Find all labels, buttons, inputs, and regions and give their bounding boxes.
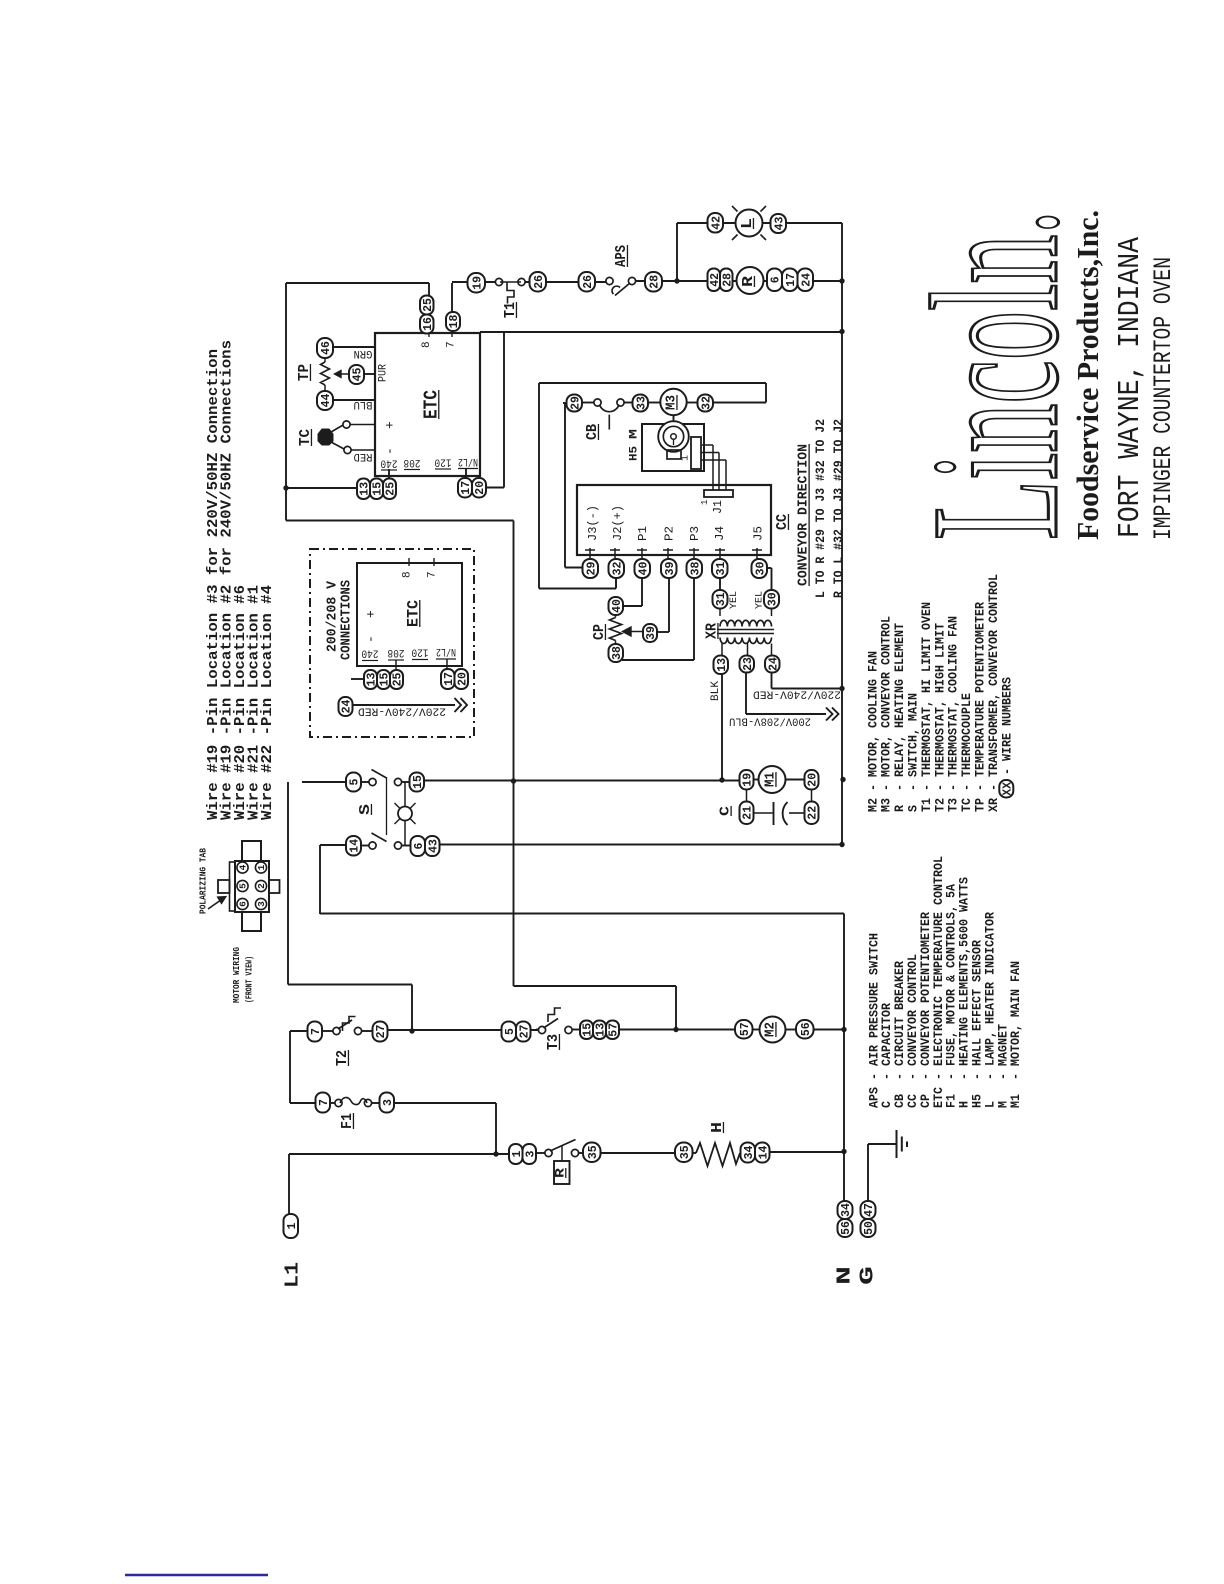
capsule 57 M2 row <box>735 1020 753 1039</box>
svg-text:22: 22 <box>807 806 820 820</box>
fuse F1 <box>330 1102 336 1104</box>
svg-text:30: 30 <box>767 592 780 606</box>
page footer blue rule <box>125 1574 268 1576</box>
svg-text:FORT WAYNE, INDIANA: FORT WAYNE, INDIANA <box>1113 237 1148 538</box>
svg-text:1: 1 <box>256 864 267 870</box>
svg-text:35: 35 <box>679 1145 692 1159</box>
svg-text:28: 28 <box>721 273 734 287</box>
capsules 15/13/57 <box>580 1021 593 1040</box>
ground wire <box>867 1144 869 1201</box>
svg-text:-: - <box>382 447 397 455</box>
wire: APS to relay branch to right bus <box>632 280 842 282</box>
svg-text:2: 2 <box>256 883 267 889</box>
svg-text:Lincoln.: Lincoln. <box>895 210 1096 540</box>
svg-text:8: 8 <box>402 571 414 578</box>
svg-text:N: N <box>833 1266 855 1285</box>
svg-text:27: 27 <box>375 1025 388 1039</box>
svg-text:220V/240V-RED: 220V/240V-RED <box>753 688 841 700</box>
capsule 13 <box>714 656 729 675</box>
wire: 23 to BLU arrow <box>745 673 747 715</box>
thermostat T1 hi-limit <box>495 278 502 285</box>
svg-text:40: 40 <box>611 599 624 613</box>
svg-text:29: 29 <box>585 562 598 576</box>
capsule 56 <box>796 1020 814 1039</box>
wire: left rail to switch feed row y=520 <box>286 520 514 522</box>
svg-text:120: 120 <box>435 456 452 468</box>
svg-text:M: M <box>629 428 641 439</box>
XR primary winding <box>720 620 772 626</box>
svg-text:29: 29 <box>569 396 582 410</box>
wire 44 BLU to ETC <box>333 399 375 401</box>
capsules 34/14 <box>741 1143 756 1163</box>
wire: 30 hook <box>766 567 772 569</box>
svg-text:208: 208 <box>388 646 405 658</box>
lamp L heater indicator <box>736 210 763 237</box>
XR taps <box>721 644 723 656</box>
wire: 38 to CP <box>693 578 695 660</box>
capsule 39 under P2 <box>661 559 677 578</box>
svg-text:18: 18 <box>448 315 461 329</box>
capsule 27 <box>373 1022 388 1042</box>
svg-text:43: 43 <box>773 217 786 231</box>
switch link bar <box>386 777 388 835</box>
svg-text:IMPINGER COUNTERTOP OVEN: IMPINGER COUNTERTOP OVEN <box>1149 257 1178 540</box>
capsule 3 fuse out <box>380 1093 395 1113</box>
svg-text:44: 44 <box>320 394 333 408</box>
svg-text:34: 34 <box>743 1146 756 1160</box>
capsule 29 under J3 <box>583 559 599 578</box>
svg-text:3: 3 <box>256 901 267 907</box>
svg-text:YEL: YEL <box>754 591 766 609</box>
svg-text:240: 240 <box>381 457 398 469</box>
wire: lamp branch vertical <box>676 223 678 281</box>
svg-text:P1: P1 <box>637 526 650 541</box>
svg-text:P2: P2 <box>663 526 676 541</box>
wire: bottom rail from L1 <box>289 1153 509 1155</box>
capsules 13/15/25 under ETC2 <box>351 678 364 680</box>
svg-text:20: 20 <box>456 672 469 686</box>
svg-text:32: 32 <box>700 396 713 410</box>
legend XX wire numbers line <box>999 780 1013 798</box>
capsule 44 <box>317 391 333 410</box>
thermostat T3 cooling fan <box>538 1026 545 1033</box>
svg-text:23: 23 <box>742 657 755 671</box>
svg-text:39: 39 <box>645 626 658 640</box>
circuit breaker CB <box>594 399 601 406</box>
capsule 18 on pin7 wire <box>446 312 460 331</box>
svg-text:-: - <box>363 635 378 643</box>
svg-text:N/L2: N/L2 <box>436 645 456 657</box>
svg-text:6: 6 <box>770 276 783 283</box>
wire: T2/F1 left link <box>289 1031 291 1103</box>
connector pins 1 2 3 <box>255 862 266 873</box>
wire: pole1 contact links <box>361 781 370 783</box>
svg-text:220V/240V-RED: 220V/240V-RED <box>358 705 446 717</box>
wire: M3 row <box>563 402 567 404</box>
svg-text:38: 38 <box>689 562 702 576</box>
svg-text:R TO L #32 TO J3 #29 TO J2: R TO L #32 TO J3 #29 TO J2 <box>831 419 846 598</box>
svg-text:200/208 V: 200/208 V <box>326 580 341 652</box>
svg-text:7: 7 <box>446 341 458 348</box>
capsules 6/43 <box>411 836 426 856</box>
svg-text:3: 3 <box>524 1150 537 1157</box>
magnet M circles <box>658 421 689 452</box>
svg-text:7: 7 <box>318 1099 331 1106</box>
wire: 32 drop <box>615 578 617 589</box>
wire: ETC1 240-pin stub <box>388 469 390 478</box>
svg-text:47: 47 <box>863 1203 876 1217</box>
capsules 1/3 bottom rail <box>509 1144 523 1164</box>
svg-text:42: 42 <box>710 216 723 230</box>
svg-text:M1 - MOTOR, MAIN FAN: M1 - MOTOR, MAIN FAN <box>1008 961 1023 1108</box>
svg-text:P3: P3 <box>689 526 702 541</box>
wire: pole1 feed corner down <box>287 782 289 985</box>
svg-text:20: 20 <box>807 773 820 787</box>
svg-text:Foodservice Products,Inc.: Foodservice Products,Inc. <box>1070 210 1105 540</box>
junction dots main <box>674 278 679 283</box>
svg-text:YEL: YEL <box>728 591 740 609</box>
wire: L1 riser <box>288 1154 290 1214</box>
wire: H row <box>536 1152 547 1154</box>
svg-text:19: 19 <box>471 276 484 290</box>
svg-text:N/L2: N/L2 <box>458 455 478 467</box>
svg-text:31: 31 <box>715 562 728 576</box>
capsule 38 under P3 <box>687 559 703 578</box>
main switch S pole1 <box>346 773 361 792</box>
svg-text:J3(-): J3(-) <box>587 505 600 541</box>
svg-text:34: 34 <box>840 1203 853 1217</box>
svg-text:MOTOR WIRING: MOTOR WIRING <box>231 947 242 1003</box>
hall effect sensor H5 box <box>642 424 704 471</box>
wire: vertical x=504 pin bus <box>503 332 505 488</box>
svg-text:57: 57 <box>608 1023 621 1037</box>
capsule 16/25 pair on pin8 wire <box>420 296 434 315</box>
wire: M1 links <box>754 779 760 781</box>
capacitor C <box>746 790 748 802</box>
wire: pole2 contact links <box>361 845 370 847</box>
svg-text:1: 1 <box>680 455 691 461</box>
transformer XR <box>713 590 728 609</box>
wire: bridge from M3 to CC 32 <box>765 383 767 403</box>
capsule 26 second <box>579 272 596 292</box>
svg-text:- WIRE NUMBERS: - WIRE NUMBERS <box>999 677 1014 775</box>
capsule 43 <box>771 214 787 233</box>
svg-text:H5: H5 <box>629 446 641 461</box>
svg-text:5: 5 <box>349 778 362 785</box>
capsule 24 arrow 220V/240V-RED <box>339 697 353 716</box>
svg-text:1: 1 <box>700 500 710 505</box>
svg-text:30: 30 <box>754 562 767 576</box>
wire: T3 row to M2 row <box>536 1029 540 1031</box>
wire: x=513.5 corner to T3 feed <box>514 985 677 987</box>
svg-text:35: 35 <box>587 1145 600 1159</box>
capsule 1 L1 <box>284 1214 299 1238</box>
wires connector to J1 bar <box>701 444 713 446</box>
capsules 42/28 relay side <box>708 269 721 292</box>
switch neon lamp <box>404 782 406 807</box>
heating element H <box>696 1143 740 1166</box>
svg-text:Wire #22 -Pin Location #4: Wire #22 -Pin Location #4 <box>259 585 276 820</box>
hall sensor chip rect <box>667 450 681 459</box>
ground symbol <box>896 1130 898 1158</box>
svg-text:200V/208V-BLU: 200V/208V-BLU <box>729 715 811 727</box>
svg-text:G: G <box>856 1266 878 1285</box>
wire: vertical x=513.5 down to y=986 <box>513 521 515 987</box>
svg-text:26: 26 <box>533 275 546 289</box>
J1 connector bar <box>704 490 733 497</box>
capsule 32 breaker row <box>698 395 714 412</box>
wire: M3 to magnet <box>673 415 675 421</box>
conveyor potentiometer CP <box>609 597 624 615</box>
svg-text:R: R <box>552 1168 567 1178</box>
capsules 13/15/25 under ETC1 <box>357 479 370 500</box>
capsule 46 <box>317 338 333 358</box>
svg-text:J5: J5 <box>752 526 765 541</box>
svg-text:46: 46 <box>320 341 333 355</box>
wire: right bus upper segment <box>841 223 843 845</box>
svg-text:13: 13 <box>716 658 729 672</box>
CC pin ticks and stubs <box>589 548 591 559</box>
wire: 31 stub <box>719 578 721 590</box>
switch S pole2 <box>346 836 361 856</box>
svg-text:20: 20 <box>474 481 487 495</box>
svg-text:16: 16 <box>422 317 435 331</box>
svg-text:RED: RED <box>353 450 372 462</box>
svg-text:J2(+): J2(+) <box>612 505 625 541</box>
ETC2 stubs <box>395 661 397 671</box>
svg-text:4: 4 <box>238 864 249 870</box>
motor M2 cooling fan <box>760 1017 786 1043</box>
wire: pin7 to chain corner <box>451 283 453 333</box>
wire: ETC pin8 net top-left rail <box>285 283 287 521</box>
svg-text:24: 24 <box>767 657 780 671</box>
capsule 26 first <box>530 272 547 292</box>
svg-text:8: 8 <box>421 341 433 348</box>
svg-text:14: 14 <box>757 1146 770 1160</box>
relay R contact <box>545 1149 552 1156</box>
svg-text:7: 7 <box>427 571 439 578</box>
svg-text:57: 57 <box>739 1022 752 1036</box>
svg-text:J1: J1 <box>712 500 725 514</box>
capsule 42 lamp side <box>708 213 724 233</box>
wire: 13 BLK to M1 row <box>721 674 723 780</box>
polarizing tab arrow <box>208 899 223 910</box>
capsules 6/17/24 <box>767 269 782 292</box>
svg-text:24: 24 <box>341 700 354 714</box>
wire: pole2 row to capsules <box>320 844 346 846</box>
TC plus lead <box>349 424 375 426</box>
capsule 28 <box>645 272 662 292</box>
wire: lamp row <box>677 222 842 224</box>
svg-text:7: 7 <box>310 1028 323 1035</box>
capsule 35 first <box>583 1143 601 1163</box>
capsules 17/20 under ETC1 <box>458 478 472 498</box>
connector bar 1 <box>691 437 701 469</box>
svg-text:PUR: PUR <box>378 364 390 382</box>
wire: wire3 drop to bottom rail <box>495 1103 497 1154</box>
motor wiring connector <box>235 861 269 912</box>
wire: F1 row <box>290 1102 316 1104</box>
relay R coil circle <box>737 267 764 294</box>
svg-text:+: + <box>363 610 378 618</box>
XR core lines <box>717 629 774 631</box>
capsules 5/27 T3 row <box>502 1022 517 1042</box>
svg-text:24: 24 <box>800 273 813 287</box>
ETC control box U1 <box>375 333 480 476</box>
svg-text:POLARIZING TAB: POLARIZING TAB <box>198 848 209 914</box>
svg-text:240: 240 <box>362 647 379 659</box>
svg-text:BLK: BLK <box>710 681 722 701</box>
capsule 24 <box>765 656 780 673</box>
capsule 30 under J5 <box>752 559 768 578</box>
svg-text:5: 5 <box>238 883 249 889</box>
svg-text:27: 27 <box>518 1025 531 1039</box>
thermostat T2 high limit <box>308 1022 323 1042</box>
svg-text:6: 6 <box>238 901 249 907</box>
svg-text:J4: J4 <box>714 526 727 541</box>
wire: 39 to CP wiper <box>668 578 670 632</box>
wire: 40 to CP <box>641 578 643 606</box>
svg-text:(FRONT VIEW): (FRONT VIEW) <box>244 956 255 1003</box>
wire: switch S pole1 row <box>302 781 346 783</box>
capsule 35 second <box>675 1143 693 1163</box>
svg-text:17: 17 <box>785 273 798 287</box>
svg-text:1: 1 <box>286 1222 299 1229</box>
svg-text:GRN: GRN <box>354 347 373 359</box>
capsules 17/20 under ETC2 <box>441 669 455 689</box>
capsule 40 under P1 <box>635 559 651 578</box>
svg-text:6: 6 <box>413 842 426 849</box>
wire: ETC1 N/L2 pin stub <box>465 469 467 478</box>
svg-text:28: 28 <box>649 275 662 289</box>
wire: pole2 corner down to row y=913 <box>319 845 321 914</box>
svg-text:56: 56 <box>800 1022 813 1036</box>
ETC2 alternate control box <box>357 563 462 666</box>
svg-text:L1: L1 <box>281 1262 303 1288</box>
svg-text:19: 19 <box>742 773 755 787</box>
svg-text:L TO R #29 TO J3 #32 TO J2: L TO R #29 TO J3 #32 TO J2 <box>813 419 828 598</box>
capsules 47/50 G <box>861 1201 876 1219</box>
wire: ETC N/L2 bus y=332 <box>480 331 842 333</box>
relay R coil box <box>554 1161 570 1184</box>
svg-text:25: 25 <box>385 482 398 496</box>
capsule 32 under J2 <box>609 559 625 578</box>
TC minus lead RED <box>350 449 375 451</box>
wire: CB29 drop to CC 29 <box>564 403 566 568</box>
capsule 45 <box>349 365 364 384</box>
dashed 200/208V connections box <box>310 549 474 737</box>
capsule 19 M1 <box>740 770 754 790</box>
motor M1 main fan <box>759 766 786 793</box>
motor M3 conveyor <box>660 389 686 415</box>
svg-text:3: 3 <box>382 1099 395 1106</box>
wire: 13/15/25 tie to left rail <box>286 487 357 489</box>
capsule 15 <box>410 773 425 792</box>
svg-text:120: 120 <box>412 646 429 658</box>
svg-text:40: 40 <box>637 562 650 576</box>
svg-text:25: 25 <box>392 673 405 687</box>
capsule 23 <box>740 656 755 673</box>
svg-text:+: + <box>382 421 397 429</box>
capsule 29 breaker row <box>567 395 583 412</box>
conveyor control CC box <box>577 485 771 555</box>
wire: right bus lower segment <box>843 914 845 1202</box>
XR secondary winding <box>720 638 772 644</box>
svg-text:15: 15 <box>412 775 425 789</box>
svg-text:33: 33 <box>635 396 648 410</box>
capsule 33 <box>633 395 649 412</box>
svg-text:XX: XX <box>1001 782 1014 796</box>
svg-text:14: 14 <box>349 839 362 853</box>
wire 45 to ETC <box>364 373 375 375</box>
svg-text:43: 43 <box>427 839 440 853</box>
capsule 31 under J4 <box>712 559 728 578</box>
svg-text:45: 45 <box>352 368 365 382</box>
svg-text:31: 31 <box>715 592 728 606</box>
wire: T2 row <box>290 1030 308 1032</box>
svg-text:208: 208 <box>404 456 421 468</box>
wire 46 GRN to ETC <box>333 346 375 348</box>
svg-text:32: 32 <box>611 562 624 576</box>
svg-text:CONNECTIONS: CONNECTIONS <box>340 580 355 660</box>
svg-text:56: 56 <box>840 1221 853 1235</box>
connector pins 4 5 6 <box>237 862 248 873</box>
capsule 20 <box>805 770 819 790</box>
svg-text:39: 39 <box>664 562 677 576</box>
svg-text:BLU: BLU <box>354 398 373 410</box>
svg-text:5: 5 <box>504 1028 517 1035</box>
svg-text:21: 21 <box>742 806 755 820</box>
wire: 24 to RED junction <box>771 673 773 689</box>
svg-text:26: 26 <box>582 275 595 289</box>
capsules 34/56 N <box>838 1201 853 1219</box>
svg-text:25: 25 <box>422 298 435 312</box>
svg-text:38: 38 <box>611 646 624 660</box>
svg-text:50: 50 <box>863 1221 876 1235</box>
capsule 19 <box>468 273 486 293</box>
wire: T1 to APS segment <box>521 281 608 283</box>
APS air pressure switch <box>606 277 613 284</box>
TP wiper arrow from 45 <box>341 373 349 375</box>
